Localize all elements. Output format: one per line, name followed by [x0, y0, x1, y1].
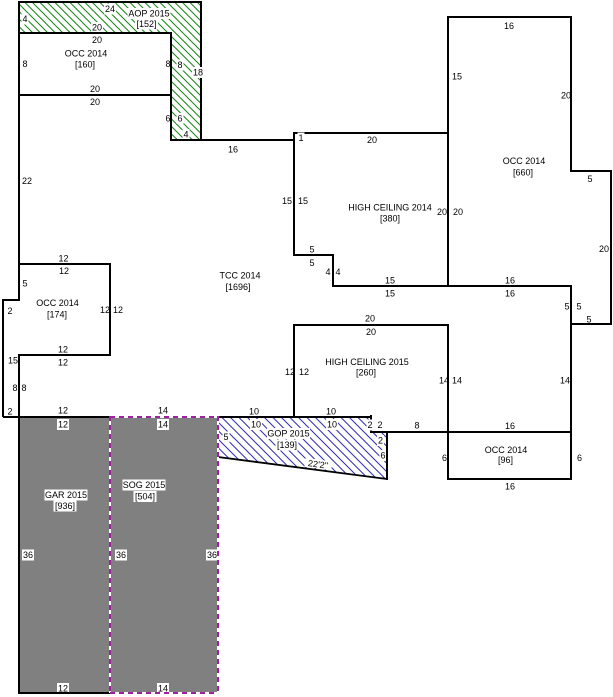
svg-text:15: 15	[385, 276, 395, 286]
label background chips (under walls)	[104, 4, 116, 15]
svg-text:36: 36	[207, 550, 217, 560]
wire HC2014 left x294	[293, 132, 295, 256]
svg-text:[96]: [96]	[498, 455, 513, 465]
wire AOP strip bottom y140 right	[170, 139, 202, 141]
wire AOP inner vertical x171	[170, 32, 172, 141]
svg-text:2: 2	[7, 306, 12, 316]
svg-text:4: 4	[325, 267, 330, 277]
wire left wall x19 lower	[18, 354, 20, 694]
wire bottom edge y416 west	[3, 416, 111, 418]
svg-text:20: 20	[367, 135, 377, 145]
svg-text:15: 15	[452, 72, 462, 82]
wire TCC bottom y432	[370, 431, 572, 433]
svg-text:OCC 2014: OCC 2014	[65, 49, 108, 59]
svg-text:6: 6	[442, 453, 447, 463]
svg-text:15: 15	[385, 289, 395, 299]
wire OCC174 bottom y355	[18, 354, 111, 356]
svg-text:20: 20	[90, 97, 100, 107]
svg-text:HIGH CEILING 2014: HIGH CEILING 2014	[348, 203, 432, 213]
wire GOP right x387	[386, 431, 388, 480]
svg-text:20: 20	[365, 314, 375, 324]
svg-text:GOP 2015: GOP 2015	[267, 429, 309, 439]
svg-text:24: 24	[105, 4, 115, 14]
svg-text:8: 8	[22, 59, 27, 69]
wire GAR bottom y693	[18, 692, 111, 694]
wire TCC top west y140	[201, 139, 295, 141]
area SOG dashed border	[110, 416, 218, 418]
svg-text:8: 8	[12, 383, 17, 393]
svg-text:6: 6	[380, 451, 385, 461]
svg-text:4: 4	[22, 14, 27, 24]
svg-text:OCC 2014: OCC 2014	[503, 156, 546, 166]
svg-text:8: 8	[414, 421, 419, 431]
svg-text:5: 5	[564, 302, 569, 312]
svg-text:12: 12	[299, 367, 309, 377]
svg-text:5: 5	[309, 245, 314, 255]
wire step x333	[332, 254, 334, 287]
svg-text:12: 12	[58, 406, 68, 416]
wire GOP top y416	[217, 416, 372, 418]
svg-text:12: 12	[58, 358, 68, 368]
wire GOP slant bottom	[218, 457, 387, 479]
label background chips (over walls)	[192, 67, 204, 78]
svg-text:20: 20	[366, 327, 376, 337]
svg-text:10: 10	[326, 407, 336, 417]
wire right step y324	[570, 323, 612, 325]
svg-text:36: 36	[116, 550, 126, 560]
wire OCC174 top y264	[18, 263, 111, 265]
svg-text:[160]: [160]	[75, 60, 95, 70]
svg-text:12: 12	[58, 420, 68, 430]
svg-text:2: 2	[377, 420, 382, 430]
svg-text:[174]: [174]	[47, 310, 67, 320]
wire HC2015/OCC96 right x448 lower	[447, 324, 449, 480]
wire right step y171	[570, 170, 612, 172]
svg-text:[1696]: [1696]	[225, 282, 250, 292]
wire step y300	[2, 299, 20, 301]
svg-text:12: 12	[58, 345, 68, 355]
svg-text:[139]: [139]	[277, 440, 297, 450]
area AOP 2015 hatched fill	[19, 2, 201, 140]
svg-text:4: 4	[183, 130, 188, 140]
svg-text:8: 8	[21, 383, 26, 393]
svg-text:10: 10	[249, 407, 259, 417]
svg-text:12: 12	[285, 367, 295, 377]
wire OCC660 top y17	[447, 16, 572, 18]
area GOP 2015 hatched fill	[218, 416, 387, 479]
svg-text:15: 15	[8, 356, 18, 366]
wire AOP bottom / OCC160 top y33	[18, 32, 172, 34]
svg-text:14: 14	[452, 376, 462, 386]
svg-text:5: 5	[22, 279, 27, 289]
svg-text:36: 36	[23, 550, 33, 560]
svg-text:14: 14	[439, 376, 449, 386]
wire left wall x19 upper	[18, 1, 20, 265]
svg-text:12: 12	[100, 305, 110, 315]
svg-text:TCC 2014: TCC 2014	[219, 271, 260, 281]
wire OCC160 bottom y95	[18, 94, 172, 96]
wire HC2015 top y325	[293, 324, 449, 326]
svg-text:12: 12	[58, 254, 68, 264]
svg-text:OCC 2014: OCC 2014	[485, 445, 528, 455]
svg-text:18: 18	[193, 68, 203, 78]
wire right wall x571 lower	[570, 285, 572, 480]
svg-text:OCC 2014: OCC 2014	[36, 298, 79, 308]
svg-text:20: 20	[92, 35, 102, 45]
svg-text:8: 8	[165, 59, 170, 69]
wire OCC660 right x570	[570, 16, 572, 172]
svg-text:16: 16	[505, 421, 515, 431]
svg-text:6: 6	[177, 114, 182, 124]
svg-text:16: 16	[505, 289, 515, 299]
svg-text:5: 5	[587, 174, 592, 184]
svg-text:12: 12	[59, 266, 69, 276]
svg-text:20: 20	[561, 91, 571, 101]
svg-text:8: 8	[177, 60, 182, 70]
svg-text:16: 16	[505, 276, 515, 286]
svg-text:[504]: [504]	[135, 492, 155, 502]
svg-text:16: 16	[504, 21, 514, 31]
svg-text:[660]: [660]	[513, 168, 533, 178]
svg-text:6: 6	[577, 453, 582, 463]
svg-text:[260]: [260]	[356, 368, 376, 378]
svg-text:5: 5	[309, 258, 314, 268]
svg-text:20: 20	[90, 84, 100, 94]
svg-text:[380]: [380]	[380, 214, 400, 224]
wire step x19 5ft	[18, 263, 20, 301]
svg-text:6: 6	[165, 114, 170, 124]
svg-text:14: 14	[158, 420, 168, 430]
svg-text:14: 14	[560, 376, 570, 386]
svg-text:10: 10	[327, 420, 337, 430]
svg-text:20: 20	[453, 207, 463, 217]
svg-text:AOP 2015: AOP 2015	[128, 9, 169, 19]
svg-text:5: 5	[586, 315, 591, 325]
svg-text:14: 14	[158, 684, 168, 694]
wire HC2015 left x294 lower	[293, 324, 295, 417]
svg-text:[152]: [152]	[136, 19, 156, 29]
svg-text:15: 15	[282, 196, 292, 206]
wire OCC660/HC2014 divider x448 upper	[447, 16, 449, 287]
svg-text:1: 1	[298, 133, 303, 143]
svg-text:16: 16	[505, 482, 515, 492]
area SOG 2015 gray fill	[110, 416, 218, 693]
svg-text:5: 5	[223, 432, 228, 442]
svg-text:2: 2	[7, 407, 12, 417]
node label 22ft2in slant dimension	[304, 458, 332, 471]
svg-text:[936]: [936]	[55, 501, 75, 511]
area GAR 2015 gray fill	[19, 416, 110, 693]
wire HC2014 bottom y286	[332, 285, 572, 287]
svg-text:22: 22	[22, 176, 32, 186]
svg-text:14: 14	[158, 406, 168, 416]
wire OCC96 bottom y479	[447, 478, 572, 480]
svg-text:12: 12	[113, 305, 123, 315]
wire far right wall x611	[610, 170, 612, 325]
svg-text:2: 2	[378, 436, 383, 446]
svg-text:12: 12	[58, 684, 68, 694]
svg-text:20: 20	[599, 244, 609, 254]
svg-text:20: 20	[92, 23, 102, 33]
svg-text:HIGH CEILING 2015: HIGH CEILING 2015	[325, 357, 409, 367]
svg-text:10: 10	[251, 420, 261, 430]
svg-text:15: 15	[298, 196, 308, 206]
wire AOP top edge	[18, 1, 202, 3]
svg-text:2: 2	[367, 420, 372, 430]
svg-text:16: 16	[228, 145, 238, 155]
svg-text:4: 4	[335, 267, 340, 277]
wire HC2014 top y133	[293, 132, 449, 134]
wire outer left x3	[2, 299, 4, 417]
svg-text:SOG 2015: SOG 2015	[123, 480, 166, 490]
svg-text:GAR 2015: GAR 2015	[45, 490, 87, 500]
wire AOP right edge x201	[200, 1, 202, 141]
svg-text:5: 5	[576, 302, 581, 312]
wire step y255	[293, 254, 334, 256]
wire GOP jog x371	[370, 415, 372, 433]
wire OCC174 right x110	[109, 263, 111, 356]
svg-text:20: 20	[437, 207, 447, 217]
